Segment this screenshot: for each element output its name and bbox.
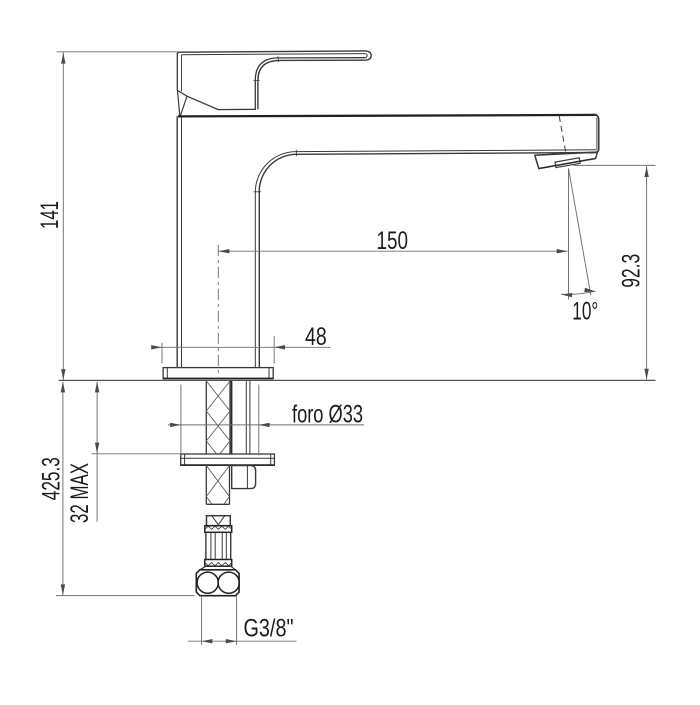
water stream vertical line: [568, 169, 570, 300]
spout underside outer line: [297, 153, 595, 155]
fillet tick marks: [254, 191, 262, 193]
dim G3/8 extension lines: [201, 596, 203, 645]
svg-text:G3/8": G3/8": [244, 615, 294, 642]
svg-text:10°: 10°: [572, 298, 598, 325]
shank thread hatch lower: [206, 466, 229, 505]
body left edge inner: [181, 117, 183, 367]
rear hose dark line: [231, 381, 233, 454]
neck taper to connector: [200, 566, 206, 570]
threaded shank lower section: [205, 465, 207, 504]
svg-text:141: 141: [37, 201, 64, 229]
hose nut below flange: [232, 466, 256, 489]
handle base outline: [177, 54, 365, 110]
flange bottom thick edge: [181, 464, 275, 466]
threaded shank upper section: [205, 381, 207, 454]
dim 425.3 extension line bottom: [56, 595, 194, 597]
counter top line: [59, 379, 656, 381]
dim 92.3 extension line top: [574, 164, 656, 166]
aerator bottom edge emphasis: [539, 159, 595, 169]
body right edge inner corner fillet inner: [255, 152, 296, 368]
dim G3/8 line: [188, 640, 297, 642]
dim 32 MAX extension line: [92, 453, 182, 455]
10deg arc arrows: [561, 293, 572, 297]
faucet body top / spout top thick edge: [178, 115, 597, 117]
hose top fitting: [207, 516, 231, 526]
shank thread hatch upper: [206, 381, 230, 454]
dim foro33 extension lines: [180, 385, 182, 456]
aerator insert rectangle: [555, 158, 580, 168]
connector circle right: [218, 572, 239, 593]
handle to body left sliver: [178, 91, 180, 116]
connector block G3/8: [196, 570, 239, 596]
braided hose body: [205, 532, 207, 559]
dim 32 MAX arrows: [95, 382, 99, 393]
hose crimp collar bottom: [205, 560, 232, 567]
body right edge inner corner fillet outer: [259, 154, 296, 367]
braid strands: [210, 532, 212, 559]
dim foro33 arrows outside: [170, 423, 181, 427]
dim G3/8 arrows inside pointing out: [202, 639, 213, 643]
handle base left inner edge: [181, 55, 183, 92]
dim 425.3 line: [62, 382, 64, 596]
dim 92.3 arrows: [644, 166, 648, 177]
centerline of body: [217, 245, 219, 381]
connector circle left: [197, 572, 218, 593]
svg-text:425.3: 425.3: [39, 457, 66, 500]
dim 48 line: [152, 346, 331, 348]
dim 141 line: [62, 52, 64, 380]
mounting flange: [181, 454, 275, 465]
body left edge outer: [176, 116, 178, 367]
base plate bottom thick edge: [163, 377, 273, 379]
rear hose pipe lines: [245, 381, 247, 454]
handle lever inner top line: [182, 54, 366, 55]
dim 141 arrows: [61, 53, 65, 64]
svg-text:48: 48: [305, 324, 327, 351]
water stream 10deg line: [569, 169, 591, 296]
base plate: [163, 368, 273, 379]
dim 48 arrows outside: [151, 345, 162, 349]
svg-text:150: 150: [377, 228, 409, 255]
spout axis dashed line: [559, 116, 566, 156]
handle lever outline: [177, 51, 371, 109]
svg-text:32 MAX: 32 MAX: [67, 463, 94, 523]
dim foro33 line: [168, 424, 364, 426]
10deg arc: [561, 291, 596, 294]
svg-text:foro Ø33: foro Ø33: [292, 402, 363, 429]
dim 92.3 line: [646, 166, 648, 380]
svg-text:92.3: 92.3: [618, 254, 645, 288]
dim 48 extension lines: [161, 343, 163, 364]
hose crimp collar top: [205, 526, 232, 533]
dim 141 extension line top: [57, 51, 179, 53]
dim 150 line: [218, 250, 567, 252]
spout right end cap: [560, 114, 599, 153]
aerator block tilted: [535, 152, 598, 169]
handle lever tip inner cap: [366, 54, 367, 58]
handle fillet tick marks: [277, 56, 280, 62]
dim 150 arrows: [219, 249, 230, 253]
spout underside inner line: [296, 150, 596, 152]
dim 425.3 arrows: [61, 382, 65, 393]
dim 32 MAX line: [96, 382, 98, 522]
